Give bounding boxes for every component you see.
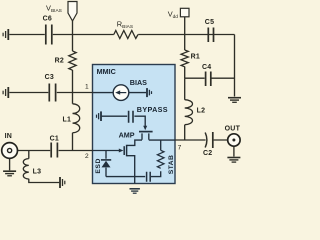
svg-text:C5: C5 — [205, 19, 214, 26]
svg-text:C3: C3 — [45, 74, 54, 81]
svg-text:C6: C6 — [43, 16, 52, 23]
svg-text:BYPASS: BYPASS — [137, 105, 168, 114]
svg-text:C1: C1 — [50, 136, 59, 143]
svg-text:R1: R1 — [191, 53, 200, 60]
svg-text:AMP: AMP — [119, 130, 135, 139]
svg-text:R2: R2 — [55, 57, 64, 64]
svg-text:OUT: OUT — [225, 125, 241, 132]
svg-text:MMIC: MMIC — [97, 67, 116, 76]
svg-text:L1: L1 — [63, 116, 72, 123]
svg-text:C2: C2 — [203, 150, 212, 157]
svg-text:1: 1 — [85, 83, 89, 90]
svg-text:L2: L2 — [197, 107, 206, 114]
svg-text:7: 7 — [178, 144, 182, 151]
svg-text:C4: C4 — [202, 64, 211, 71]
svg-text:IN: IN — [5, 133, 13, 140]
svg-text:STAB: STAB — [168, 155, 175, 175]
svg-text:2: 2 — [85, 153, 89, 160]
svg-text:BIAS: BIAS — [130, 78, 147, 87]
svg-text:L3: L3 — [33, 168, 42, 175]
svg-text:ESD: ESD — [95, 158, 102, 173]
